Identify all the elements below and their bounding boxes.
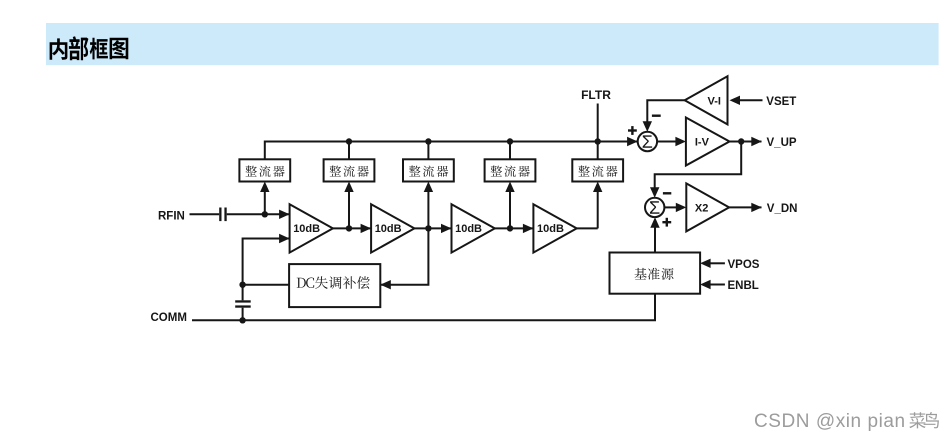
svg-text:ENBL: ENBL: [728, 280, 759, 292]
svg-text:X2: X2: [695, 203, 708, 215]
svg-text:FLTR: FLTR: [581, 88, 611, 102]
svg-text:10dB: 10dB: [375, 223, 402, 235]
svg-text:VPOS: VPOS: [728, 259, 760, 271]
svg-text:CSDN @xin pian: CSDN @xin pian: [754, 411, 906, 432]
svg-text:V-I: V-I: [707, 95, 720, 107]
svg-text:V_DN: V_DN: [767, 203, 798, 215]
svg-text:VSET: VSET: [766, 96, 796, 108]
svg-text:10dB: 10dB: [537, 223, 564, 235]
svg-text:10dB: 10dB: [293, 223, 320, 235]
svg-text:V_UP: V_UP: [767, 137, 797, 149]
svg-text:COMM: COMM: [151, 312, 187, 324]
svg-text:10dB: 10dB: [455, 223, 482, 235]
svg-text:I-V: I-V: [695, 137, 710, 149]
svg-text:RFIN: RFIN: [158, 210, 185, 222]
